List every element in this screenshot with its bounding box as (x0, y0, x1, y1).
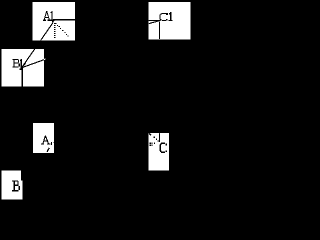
node box A (center small) (33, 123, 54, 153)
label A1: letter A glyph (43, 11, 50, 21)
node box C1 (top right) (149, 2, 191, 40)
label B1: letter B glyph (13, 59, 20, 68)
edge B1 vertical line down (21, 68, 23, 87)
dots on diagonal (154, 137, 155, 138)
dotted arrow whisker rows (150, 143, 151, 144)
label B (bottom) glyph (12, 180, 20, 191)
dotted vertical edge below A1 junction (54, 23, 55, 38)
node box A1 (top left) (33, 2, 75, 40)
contents of box B (bottom) (12, 180, 20, 191)
white nub of B1 shallow edge outside box (44, 58, 46, 61)
label A (center) glyph (41, 135, 50, 144)
edge B1 shallow line to right (22, 59, 46, 67)
edge A1-B1 diagonal (A1 side) (22, 23, 53, 68)
arrowhead at A1 junction (51, 20, 54, 23)
arrowhead whisker at C1 junction (149, 21, 159, 24)
edge C1 vertical line down (159, 21, 161, 39)
node box B (bottom left, stepped outline) (2, 171, 23, 200)
label C (right) glyph (160, 143, 167, 153)
label C1: digit 1 glyph (169, 12, 173, 21)
dotted diagonal edge from A1 junction (down-right) (55, 23, 68, 37)
arrow whisker at B1 junction (23, 63, 26, 66)
edge stub slash below A (47, 148, 49, 152)
contents of box B1 (13, 23, 53, 87)
contents of box C (right) (149, 133, 167, 153)
dotted diagonal dash at C corner (149, 133, 151, 135)
clipped digit sliver right of A (51, 142, 52, 145)
label A1: digit 1 glyph (50, 11, 53, 21)
label C1: letter C glyph (159, 13, 167, 21)
node box C (right small) (149, 133, 169, 171)
edge C vertical stub (159, 133, 161, 142)
node box B1 (middle left) (2, 49, 44, 87)
contents of box C1 (149, 12, 173, 39)
edge A1-C1 entering line (149, 20, 161, 22)
edge A1-C1 horizontal line (53, 19, 75, 21)
contents of box A (center) (41, 135, 54, 152)
edge B1-A1 diagonal (B1 side) (22, 23, 53, 68)
serif blob at B1 junction (20, 69, 23, 70)
label B1: digit 1 glyph (20, 59, 22, 69)
contents of box A1 (22, 11, 75, 68)
